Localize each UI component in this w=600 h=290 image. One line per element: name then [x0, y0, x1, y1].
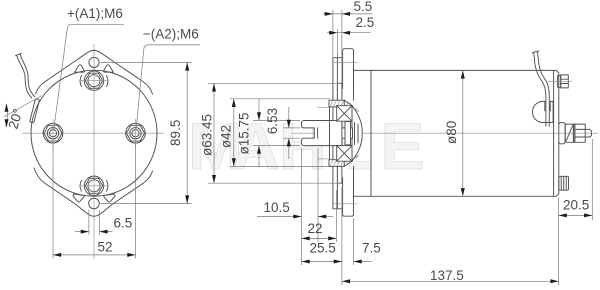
spigot face line [329, 107, 331, 160]
dim 5.5 [332, 10, 334, 58]
hatched wedge bottom [344, 160, 353, 167]
dim dia42 [230, 98, 330, 100]
top lobe window left [75, 65, 85, 73]
bottom flange hole [89, 198, 100, 209]
svg-text:6.5: 6.5 [114, 216, 133, 231]
dim 10.5 [301, 148, 303, 265]
flange pilot ring [337, 83, 342, 183]
dim dia80 [462, 70, 464, 196]
flange bottom tab [343, 178, 354, 216]
bottom mounting lobe [34, 168, 153, 216]
svg-text:5.5: 5.5 [354, 0, 373, 14]
svg-text:−(A2);M6: −(A2);M6 [143, 27, 199, 42]
dim 137.5 [558, 198, 560, 286]
dim 7.5 [353, 218, 355, 265]
rear wire tips [532, 51, 539, 58]
bolt centerline ticks [52, 119, 54, 147]
spigot hatched block bottom [329, 160, 344, 167]
wires front view [18, 59, 32, 98]
shaft end block [345, 122, 351, 145]
shaft band [314, 128, 352, 138]
dim 89.5 [101, 61, 192, 63]
boss arcs around top bolt [80, 76, 108, 87]
svg-text:10.5: 10.5 [264, 200, 290, 215]
rear bottom ribbed cap [559, 176, 569, 190]
body front edge segments [353, 70, 355, 100]
dim 20.5 [591, 139, 593, 220]
bearing box bottom [337, 146, 352, 162]
dim dia15.75 [253, 120, 300, 122]
clevis fork [301, 121, 342, 146]
watermark occluder [328, 159, 348, 173]
side view centerline [291, 132, 598, 134]
main terminal stud [559, 123, 592, 144]
svg-text:ø42: ø42 [219, 125, 234, 148]
leader +(A1);M6 [54, 24, 124, 130]
top lobe window right [104, 65, 114, 73]
svg-text:+(A1);M6: +(A1);M6 [67, 6, 123, 21]
svg-text:6.53: 6.53 [265, 108, 280, 134]
svg-text:2.5: 2.5 [356, 15, 375, 30]
dim dia63.45 [208, 82, 340, 84]
svg-text:ø15.75: ø15.75 [237, 112, 252, 154]
MAHLE watermark [188, 109, 425, 183]
hex bolt right [126, 123, 146, 143]
flange top tab [343, 49, 354, 89]
dim 6.5 [88, 210, 90, 235]
dim 22 [335, 190, 337, 242]
front view horizontal centerline [22, 132, 164, 134]
dim 6.53 [283, 127, 300, 129]
svg-text:ø80: ø80 [444, 121, 459, 144]
wire tips [16, 53, 22, 59]
svg-text:137.5: 137.5 [430, 268, 464, 283]
dim 2.5 [336, 29, 338, 58]
svg-text:7.5: 7.5 [362, 240, 381, 255]
hex bolt bottom [84, 176, 103, 195]
20 deg dimension [6, 105, 8, 127]
boss arcs around bottom bolt [80, 180, 108, 191]
motor body outline [354, 70, 559, 196]
bearing dome fill [352, 106, 362, 161]
top mounting lobe [36, 50, 153, 94]
top flange hole [89, 57, 99, 67]
spigot hatched block top [329, 100, 344, 107]
rear wires [534, 58, 546, 127]
small terminal top rear [558, 75, 569, 88]
shaft end lines [354, 123, 356, 145]
bearing box top [337, 106, 352, 122]
bottom lobe window left [73, 194, 84, 202]
flange plate [333, 58, 338, 209]
hatched wedge top [344, 100, 353, 107]
hex bolt left [43, 123, 63, 143]
svg-text:52: 52 [98, 240, 113, 255]
wire terminal tab at 20 deg [30, 99, 40, 123]
svg-text:25.5: 25.5 [310, 240, 336, 255]
svg-text:20.5: 20.5 [563, 198, 589, 213]
rear cap joint line [553, 70, 555, 196]
housing joint line [370, 70, 372, 196]
fork slot end second line [317, 128, 319, 138]
front view vertical centerline [93, 44, 95, 259]
mounting hole center marks [333, 62, 357, 64]
hex bolt top [84, 71, 103, 90]
cable clamp [532, 101, 553, 122]
leader -(A2);M6 [136, 45, 200, 129]
svg-text:89.5: 89.5 [168, 120, 183, 146]
dim 52 [52, 143, 54, 259]
bearing seat lines [318, 107, 330, 109]
svg-text:ø63.45: ø63.45 [200, 114, 215, 156]
bottom lobe window right [104, 194, 115, 202]
svg-text:22: 22 [308, 221, 323, 236]
svg-text:E: E [381, 109, 425, 183]
dim 25.5 [341, 187, 343, 285]
motor body circle [31, 70, 157, 196]
